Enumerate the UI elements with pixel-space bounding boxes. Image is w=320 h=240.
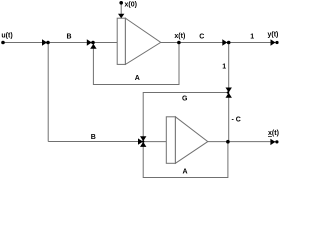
arrow right on u(t) line xyxy=(42,39,47,45)
svg-text:G: G xyxy=(182,96,188,103)
arrow up into summing 2 xyxy=(140,142,146,147)
arrow right y(t) output xyxy=(271,39,276,45)
svg-text:B: B xyxy=(91,134,96,141)
wire x(0) initial condition drop xyxy=(120,3,122,14)
arrow up into summing 1 xyxy=(90,44,96,49)
node y junction dot xyxy=(227,41,231,45)
arrow right into y junction xyxy=(222,39,227,45)
wire A feedback loop 1 xyxy=(93,43,179,85)
integrator U2 rectangle xyxy=(166,117,175,164)
node x-hat end dot xyxy=(275,140,278,143)
svg-text:- C: - C xyxy=(232,117,241,124)
node x(t) dot xyxy=(177,41,181,45)
arrow right into summing 2 xyxy=(138,138,143,144)
wire bottom B line xyxy=(48,141,143,143)
svg-text:A: A xyxy=(135,75,140,82)
wire G line xyxy=(143,93,229,142)
svg-text:x(t): x(t) xyxy=(174,33,185,40)
node summing junction 1 dot xyxy=(91,41,95,45)
svg-text:u(t): u(t) xyxy=(1,33,12,40)
node x-hat output dot xyxy=(226,140,230,144)
svg-text:C: C xyxy=(199,34,204,41)
node G junction dot xyxy=(227,91,229,93)
svg-text:y(t): y(t) xyxy=(268,32,279,39)
wire x(t)-hat output line xyxy=(208,141,277,143)
wire integrator2 input xyxy=(143,141,166,143)
wire top main u(t) line xyxy=(3,42,117,44)
arrow down into G junction xyxy=(226,88,232,93)
node branch dot xyxy=(46,41,50,45)
arrow right into summing 1 xyxy=(87,39,92,45)
node summing junction 2 dot xyxy=(142,140,144,142)
arrow down into summing 2 xyxy=(140,136,146,141)
arrow up into G junction xyxy=(226,93,232,98)
svg-text:A: A xyxy=(183,169,188,176)
wire right vertical 1 / -C line xyxy=(228,43,230,142)
node y(t) end dot xyxy=(275,41,278,44)
svg-text:1: 1 xyxy=(250,34,254,41)
node u(t) input dot xyxy=(1,41,5,45)
wire x(t) output line xyxy=(161,42,277,44)
wire A feedback loop 2 xyxy=(143,142,228,178)
svg-text:x(0): x(0) xyxy=(125,1,137,8)
integrator U2 triangle xyxy=(175,117,207,164)
integrator U1 triangle xyxy=(125,18,160,64)
node x(0) dot xyxy=(119,1,123,5)
svg-text:x(t): x(t) xyxy=(268,130,279,137)
arrow down x(0) xyxy=(118,14,124,19)
svg-text:1: 1 xyxy=(222,63,226,70)
wire branch down from node at x=48 xyxy=(47,43,49,142)
arrow right x-hat output xyxy=(270,139,275,145)
svg-text:B: B xyxy=(67,34,72,41)
integrator U1 rectangle xyxy=(117,18,125,64)
